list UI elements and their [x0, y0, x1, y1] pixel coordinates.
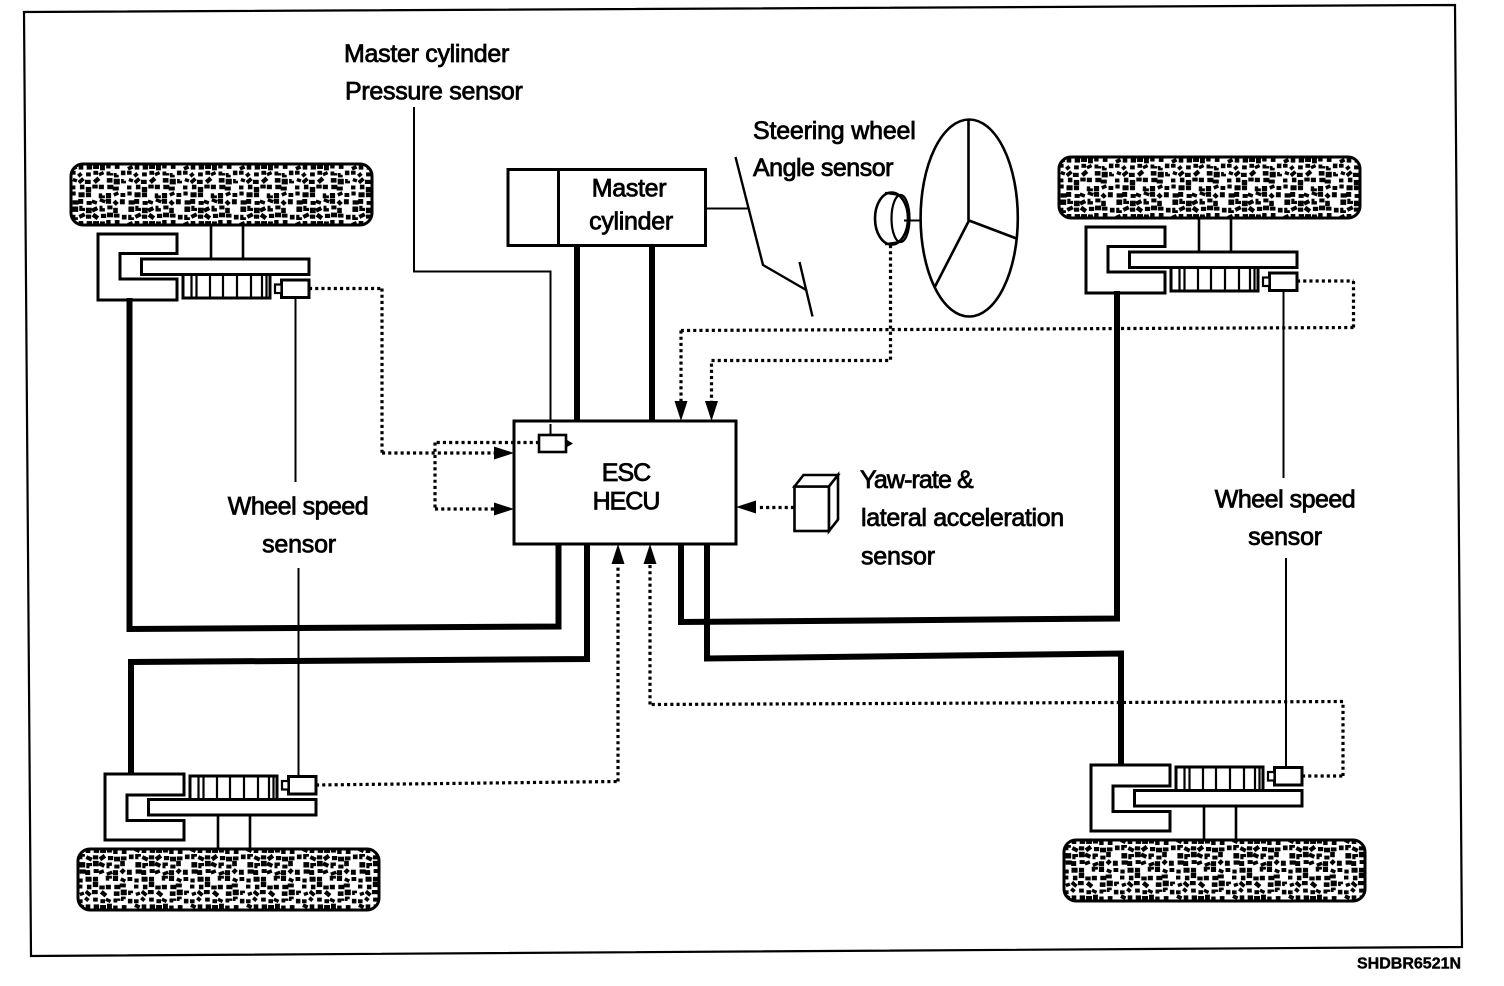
svg-text:Wheel speed: Wheel speed: [1215, 486, 1355, 514]
wheel rear-right: [1064, 765, 1365, 901]
dotted wire connector loop: [435, 443, 539, 510]
dotted wire angle sensor to HECU: [712, 245, 891, 402]
dotted wire FR sensor to HECU: [681, 281, 1354, 402]
svg-text:Yaw-rate &: Yaw-rate &: [860, 466, 974, 494]
ESC HECU box: [514, 421, 736, 544]
svg-text:lateral acceleration: lateral acceleration: [861, 504, 1064, 532]
hydraulic line MC-port2: [649, 246, 655, 421]
svg-text:HECU: HECU: [593, 488, 660, 516]
arrow into HECU top 2: [705, 401, 718, 421]
svg-text:Pressure sensor: Pressure sensor: [345, 78, 523, 106]
wire angle-sensor to wheel: [904, 220, 921, 222]
wheel front-right: [1059, 157, 1360, 293]
label line FR sensor: [1284, 291, 1287, 768]
arrow into HECU left 2: [494, 503, 514, 516]
hydraulic line FR-to-HECU: [681, 291, 1117, 622]
wheel front-left: [71, 164, 372, 300]
dotted wire yaw sensor to HECU: [757, 506, 794, 509]
yaw-rate sensor 3D box: [795, 475, 839, 531]
steering wheel spokes: [935, 121, 1017, 288]
leader line pressure-sensor label: [414, 107, 551, 436]
svg-text:Steering wheel: Steering wheel: [753, 117, 916, 145]
svg-text:cylinder: cylinder: [589, 208, 673, 236]
svg-text:Angle sensor: Angle sensor: [753, 154, 893, 182]
svg-text:Master: Master: [592, 175, 667, 203]
svg-text:SHDBR6521N: SHDBR6521N: [1357, 956, 1461, 973]
hydraulic line RR-to-HECU: [707, 542, 1121, 766]
svg-text:Wheel speed: Wheel speed: [228, 493, 368, 521]
label Master cylinder Pressure sensor: [344, 40, 523, 106]
steering wheel rim: [921, 120, 1018, 317]
svg-text:sensor: sensor: [1248, 523, 1322, 551]
dotted wire RL sensor to HECU: [316, 565, 618, 785]
svg-text:sensor: sensor: [262, 531, 336, 559]
hydraulic line FL-to-HECU: [130, 298, 559, 629]
dotted wire FL sensor to HECU: [309, 289, 495, 454]
wire MC to column: [706, 208, 750, 210]
arrow into HECU top 1: [675, 401, 688, 421]
label Wheel speed sensor right: [1215, 486, 1355, 552]
svg-text:sensor: sensor: [861, 543, 935, 571]
angle sensor body: [875, 193, 910, 245]
pressure sensor connector on HECU: [539, 435, 573, 452]
wire label-line into connector: [550, 424, 552, 435]
hydraulic line MC-port1: [574, 246, 580, 421]
svg-text:ESC: ESC: [602, 459, 651, 487]
dotted wire RR sensor to HECU: [650, 565, 1343, 776]
arrow into HECU bottom 1: [612, 544, 625, 564]
arrow into HECU bottom 2: [644, 544, 657, 564]
label Steering wheel Angle sensor: [753, 117, 916, 182]
svg-text:Master cylinder: Master cylinder: [344, 40, 509, 68]
hydraulic line RL-to-HECU: [131, 542, 587, 775]
wheel rear-left: [78, 774, 379, 910]
label Yaw-rate & lateral acceleration sensor: [860, 466, 1064, 571]
label line FL sensor: [296, 298, 299, 777]
master cylinder box: [508, 170, 706, 246]
arrow into HECU left 1: [494, 447, 514, 460]
steering column leader: [736, 157, 808, 291]
arrow into HECU right: [736, 501, 756, 514]
steering column stroke: [800, 262, 813, 317]
label Wheel speed sensor left: [228, 493, 368, 559]
